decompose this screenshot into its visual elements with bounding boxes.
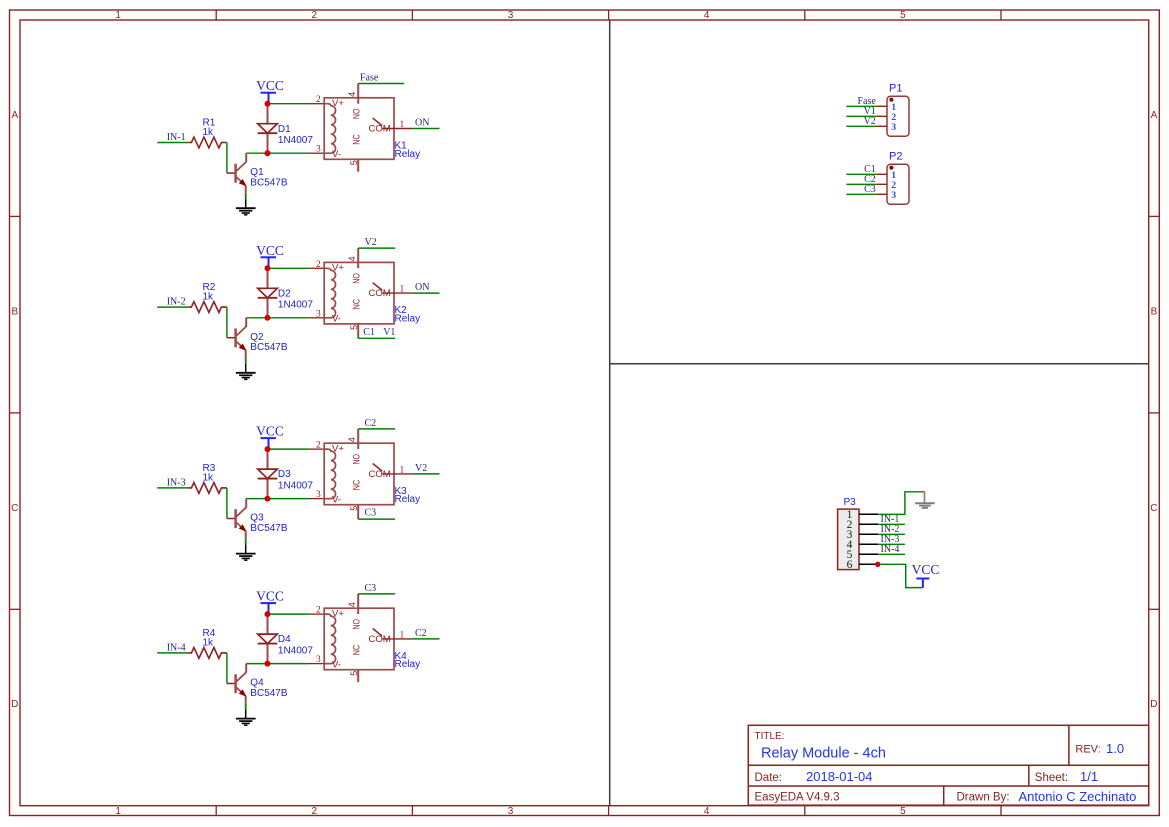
svg-text:NC: NC xyxy=(352,298,362,309)
svg-text:C2: C2 xyxy=(365,418,377,429)
svg-text:C3: C3 xyxy=(864,184,876,195)
svg-text:V+: V+ xyxy=(332,98,344,109)
svg-text:3: 3 xyxy=(316,309,321,319)
svg-text:4: 4 xyxy=(704,806,710,817)
svg-text:2: 2 xyxy=(312,806,318,817)
svg-text:BC547B: BC547B xyxy=(250,688,288,699)
svg-text:1/1: 1/1 xyxy=(1080,769,1098,784)
svg-text:Relay: Relay xyxy=(395,659,421,670)
svg-text:IN-4: IN-4 xyxy=(167,642,186,653)
svg-text:Antonio C Zechinato: Antonio C Zechinato xyxy=(1019,789,1137,804)
svg-text:1N4007: 1N4007 xyxy=(278,480,313,491)
svg-text:1N4007: 1N4007 xyxy=(278,645,313,656)
svg-text:1k: 1k xyxy=(203,473,215,484)
svg-text:V2: V2 xyxy=(365,237,377,248)
svg-text:V+: V+ xyxy=(332,443,344,454)
svg-text:Relay: Relay xyxy=(395,494,421,505)
svg-text:NO: NO xyxy=(352,619,362,630)
svg-text:NO: NO xyxy=(352,454,362,465)
svg-text:NC: NC xyxy=(352,479,362,490)
svg-text:5: 5 xyxy=(349,671,359,676)
svg-text:Relay Module - 4ch: Relay Module - 4ch xyxy=(761,746,886,762)
svg-text:5: 5 xyxy=(349,325,359,330)
svg-text:BC547B: BC547B xyxy=(250,523,288,534)
svg-text:V2: V2 xyxy=(864,116,876,127)
svg-text:1.0: 1.0 xyxy=(1106,741,1124,756)
svg-text:NO: NO xyxy=(352,109,362,120)
svg-text:D2: D2 xyxy=(278,288,291,299)
svg-text:Relay: Relay xyxy=(395,149,421,160)
svg-text:C3: C3 xyxy=(365,583,377,594)
svg-text:Relay: Relay xyxy=(395,313,421,324)
svg-text:C3: C3 xyxy=(365,508,377,519)
svg-text:1N4007: 1N4007 xyxy=(278,300,313,311)
svg-text:B: B xyxy=(1151,306,1158,317)
svg-text:5: 5 xyxy=(349,506,359,511)
svg-text:3: 3 xyxy=(508,806,514,817)
svg-text:ON: ON xyxy=(415,282,429,293)
svg-text:V1: V1 xyxy=(383,327,395,338)
svg-text:VCC: VCC xyxy=(912,562,940,577)
svg-text:V-: V- xyxy=(332,494,341,505)
svg-text:V-: V- xyxy=(332,314,341,325)
svg-text:A: A xyxy=(11,110,18,121)
svg-text:V+: V+ xyxy=(332,608,344,619)
svg-text:D1: D1 xyxy=(278,124,291,135)
svg-text:3: 3 xyxy=(316,145,321,155)
svg-text:NC: NC xyxy=(352,644,362,655)
svg-text:2: 2 xyxy=(312,10,318,21)
svg-text:P3: P3 xyxy=(844,497,857,508)
svg-text:Sheet:: Sheet: xyxy=(1035,772,1068,784)
svg-text:1: 1 xyxy=(400,631,405,641)
svg-text:1: 1 xyxy=(115,806,121,817)
svg-text:2: 2 xyxy=(316,260,321,270)
svg-text:D: D xyxy=(11,699,18,710)
svg-text:2: 2 xyxy=(316,95,321,105)
svg-text:D3: D3 xyxy=(278,469,291,480)
svg-text:5: 5 xyxy=(900,806,906,817)
svg-text:2: 2 xyxy=(316,606,321,616)
svg-text:BC547B: BC547B xyxy=(250,342,288,353)
svg-text:P2: P2 xyxy=(889,151,902,163)
svg-text:NC: NC xyxy=(352,134,362,145)
svg-text:A: A xyxy=(1151,110,1158,121)
svg-text:4: 4 xyxy=(347,92,357,97)
svg-text:5: 5 xyxy=(349,160,359,165)
svg-text:1k: 1k xyxy=(203,292,215,303)
svg-text:TITLE:: TITLE: xyxy=(755,731,785,742)
svg-text:V-: V- xyxy=(332,149,341,160)
svg-text:3: 3 xyxy=(316,655,321,665)
svg-text:6: 6 xyxy=(847,559,853,571)
svg-text:1: 1 xyxy=(400,285,405,295)
svg-text:VCC: VCC xyxy=(256,78,284,93)
svg-text:ON: ON xyxy=(415,118,429,129)
svg-text:VCC: VCC xyxy=(256,243,284,258)
svg-text:EasyEDA V4.9.3: EasyEDA V4.9.3 xyxy=(755,792,840,804)
svg-text:4: 4 xyxy=(347,256,357,261)
svg-text:C2: C2 xyxy=(415,628,427,639)
svg-text:2: 2 xyxy=(316,441,321,451)
svg-text:1k: 1k xyxy=(203,127,215,138)
svg-text:IN-4: IN-4 xyxy=(881,544,900,555)
svg-text:1: 1 xyxy=(115,10,121,21)
svg-text:3: 3 xyxy=(891,122,896,133)
svg-text:1N4007: 1N4007 xyxy=(278,135,313,146)
svg-text:1k: 1k xyxy=(203,638,215,649)
svg-text:B: B xyxy=(11,306,18,317)
svg-text:VCC: VCC xyxy=(256,424,284,439)
svg-text:IN-1: IN-1 xyxy=(167,132,186,143)
svg-text:VCC: VCC xyxy=(256,589,284,604)
svg-text:NO: NO xyxy=(352,273,362,284)
svg-text:4: 4 xyxy=(704,10,710,21)
svg-text:REV:: REV: xyxy=(1075,744,1100,756)
svg-text:3: 3 xyxy=(316,490,321,500)
svg-text:1: 1 xyxy=(400,466,405,476)
svg-text:4: 4 xyxy=(347,437,357,442)
svg-text:V-: V- xyxy=(332,659,341,670)
svg-text:4: 4 xyxy=(347,602,357,607)
svg-text:3: 3 xyxy=(891,190,896,201)
svg-text:C1: C1 xyxy=(363,327,375,338)
svg-text:Date:: Date: xyxy=(755,772,783,784)
svg-text:2018-01-04: 2018-01-04 xyxy=(806,769,873,784)
svg-text:IN-2: IN-2 xyxy=(167,297,186,308)
svg-text:V+: V+ xyxy=(332,263,344,274)
svg-text:C: C xyxy=(11,503,18,514)
svg-text:D: D xyxy=(1150,699,1157,710)
svg-text:IN-3: IN-3 xyxy=(167,477,186,488)
svg-text:BC547B: BC547B xyxy=(250,178,288,189)
svg-text:1: 1 xyxy=(400,120,405,130)
svg-text:3: 3 xyxy=(508,10,514,21)
svg-text:V2: V2 xyxy=(415,463,427,474)
svg-text:D4: D4 xyxy=(278,634,291,645)
svg-text:C: C xyxy=(1150,503,1157,514)
svg-text:Fase: Fase xyxy=(360,73,379,84)
svg-text:P1: P1 xyxy=(889,83,902,95)
svg-text:Drawn By:: Drawn By: xyxy=(957,792,1010,804)
svg-text:5: 5 xyxy=(900,10,906,21)
